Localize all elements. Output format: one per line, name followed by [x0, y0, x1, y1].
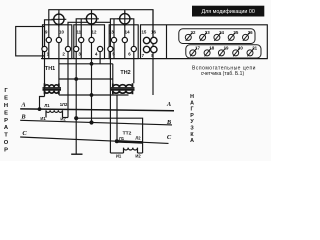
terminal 11 [79, 37, 84, 42]
svg-text:Для модификации 00: Для модификации 00 [201, 9, 254, 15]
svg-text:25: 25 [233, 30, 238, 35]
svg-text:И1: И1 [40, 116, 46, 121]
transformer TT2 secondary winding [124, 148, 138, 153]
wire TH secondary bus upper [59, 63, 113, 65]
wire t9 column [48, 20, 50, 59]
wire element1 left lead [45, 20, 54, 97]
transformer TH1 windings [45, 83, 59, 87]
terminal 17 [190, 50, 196, 56]
terminal 5 [108, 46, 113, 51]
meter bottom border [41, 58, 267, 60]
node B tap 1 [89, 120, 93, 124]
svg-text:Е: Е [4, 95, 8, 101]
svg-text:1Л2: 1Л2 [60, 102, 68, 107]
svg-text:И2: И2 [60, 116, 66, 121]
wire element3 vertical [124, 10, 126, 59]
transformer TT1 labels [40, 102, 68, 121]
svg-text:Р: Р [4, 118, 8, 124]
transformer TT2 primary bar [117, 141, 143, 142]
svg-text:Р: Р [190, 113, 194, 119]
phase line B [20, 120, 172, 125]
wire element3 right lead and t6 column [131, 19, 134, 84]
svg-text:C: C [167, 134, 172, 141]
svg-text:20: 20 [238, 46, 243, 51]
svg-text:16: 16 [151, 29, 156, 34]
terminal 12 [89, 37, 94, 42]
meter box right section [141, 25, 268, 59]
svg-text:17: 17 [195, 46, 200, 51]
wire element2 left lead and ground column [76, 19, 86, 154]
svg-text:Н: Н [4, 103, 8, 109]
auxiliary terminals strip 1 [179, 29, 255, 44]
transformer TT2 labels [116, 136, 142, 159]
phase labels left [20, 101, 172, 141]
svg-text:Н: Н [190, 94, 194, 100]
phase line C [20, 137, 168, 143]
wire TT1 secondary link [63, 117, 69, 119]
wire element2 vertical [91, 10, 93, 123]
terminal 26 [243, 34, 249, 40]
terminal 9 [46, 37, 51, 42]
svg-text:22: 22 [191, 30, 196, 35]
meter box element 1 [43, 25, 72, 59]
wire CT secondary return bus [76, 118, 142, 153]
wire current-link jumper [68, 22, 110, 117]
terminal number labels [45, 29, 157, 58]
terminal 8 [151, 46, 157, 52]
svg-text:11: 11 [76, 29, 81, 34]
svg-text:14: 14 [125, 29, 130, 34]
terminal 25 [228, 34, 234, 40]
svg-text:21: 21 [252, 46, 257, 51]
svg-text:Г: Г [190, 107, 193, 113]
transformer TH2 windings [113, 83, 133, 87]
wire element1 vertical [58, 10, 60, 84]
wire t13 column [113, 19, 115, 59]
transformer TH2 core [111, 87, 135, 89]
node A tap [38, 107, 42, 111]
node C tap [115, 139, 119, 143]
terminal 13 [111, 37, 116, 42]
terminal 19 [218, 50, 224, 56]
svg-text:13: 13 [109, 29, 114, 34]
svg-text:Л1: Л1 [119, 136, 125, 141]
measuring element U2 [86, 14, 96, 24]
terminal 15 [143, 37, 149, 43]
generator label [4, 88, 9, 154]
wire t11 column [80, 19, 82, 59]
svg-text:Е: Е [4, 110, 8, 116]
terminal 4 [98, 46, 103, 51]
terminal 18 [204, 50, 210, 56]
svg-text:26: 26 [248, 30, 253, 35]
svg-text:C: C [22, 130, 27, 137]
svg-text:24: 24 [219, 30, 224, 35]
svg-text:ТН2: ТН2 [120, 70, 130, 76]
wire TH secondary bus lower [59, 78, 113, 80]
wire terminal16-8 column [152, 10, 154, 95]
svg-text:И1: И1 [116, 153, 122, 158]
svg-text:A: A [166, 101, 171, 108]
wire TH primary bus [59, 94, 129, 96]
svg-text:И2: И2 [135, 153, 141, 158]
element U3 cross [117, 11, 132, 26]
svg-text:10: 10 [59, 29, 64, 34]
terminal 14 [122, 37, 127, 42]
wire TT2 secondary right [138, 152, 143, 154]
auxiliary terminals strip 2 [186, 45, 261, 58]
terminal 6 [131, 46, 136, 51]
svg-text:А: А [190, 138, 194, 144]
svg-text:Л2: Л2 [135, 136, 141, 141]
meter box element 3 [109, 25, 138, 59]
wire TH2 secondary left lead [112, 64, 114, 84]
svg-text:О: О [4, 140, 9, 146]
terminal 24 [214, 34, 220, 40]
svg-text:Л1: Л1 [44, 103, 50, 108]
svg-text:А: А [190, 100, 194, 106]
svg-text:ТН1: ТН1 [45, 66, 55, 72]
svg-text:Т: Т [4, 133, 8, 139]
load label [190, 94, 194, 144]
terminal 3 [74, 46, 79, 51]
element U1 cross [52, 12, 67, 27]
measuring element U1 [54, 14, 64, 24]
wire TT2 secondary left [110, 152, 123, 154]
modification label box [192, 6, 264, 17]
ground symbol [71, 153, 82, 155]
svg-text:B: B [20, 114, 26, 121]
meter box element 2 [74, 25, 105, 59]
terminal 1 [42, 46, 47, 51]
terminal 10 [56, 37, 61, 42]
wire TH1 primary right lead [58, 93, 60, 96]
wire left loop rectangle [16, 27, 45, 56]
svg-text:23: 23 [205, 30, 210, 35]
terminal 22 [185, 34, 191, 40]
node bus upper [90, 62, 94, 66]
transformer TT1 secondary winding [46, 110, 63, 117]
wire TH2 primary left lead to phase C [116, 95, 118, 141]
terminal 23 [200, 34, 206, 40]
svg-text:18: 18 [209, 46, 214, 51]
node primary bus [90, 93, 94, 97]
terminal 2 [65, 46, 70, 51]
terminal 16 [151, 37, 157, 43]
terminal 20 [233, 50, 239, 56]
wire element3 left lead [110, 19, 119, 153]
measuring element U3 [120, 14, 130, 24]
svg-text:счетчика (таб. Б.1): счетчика (таб. Б.1) [201, 71, 245, 77]
transformer TH1 core [43, 87, 62, 89]
svg-text:B: B [166, 119, 172, 126]
phase line A [20, 109, 174, 111]
svg-text:19: 19 [224, 46, 229, 51]
wire top bus [49, 10, 153, 41]
svg-text:A: A [20, 101, 25, 108]
svg-text:12: 12 [92, 29, 97, 34]
wire t4 stub [99, 52, 101, 64]
junction dots [38, 62, 119, 143]
svg-text:Р: Р [4, 148, 8, 154]
node bus lower [74, 77, 78, 81]
svg-text:15: 15 [141, 29, 146, 34]
element U2 cross [84, 11, 99, 26]
terminal 7 [143, 46, 149, 52]
node ground tee [74, 116, 78, 120]
terminal 21 [247, 50, 253, 56]
wire TH1 primary left lead [40, 97, 45, 110]
divider line [166, 25, 168, 59]
